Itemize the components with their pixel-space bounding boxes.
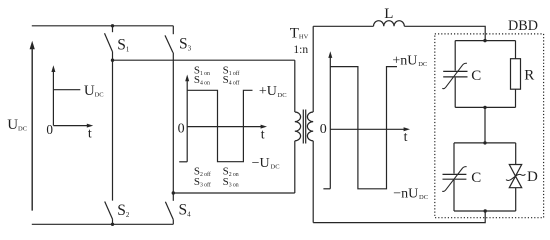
capacitor C (upper, variable): [442, 63, 467, 88]
svg-text:DC: DC: [271, 164, 280, 171]
svg-text:C: C: [471, 170, 481, 186]
secondary square wave: [330, 67, 397, 189]
svg-text:C: C: [471, 68, 481, 84]
svg-text:S1: S1: [117, 37, 130, 54]
inductor L: [374, 21, 405, 27]
wire midpoint B to transformer (box bottom edge): [173, 192, 294, 194]
label +nU_DC: [392, 54, 427, 69]
label U_DC (inset): [84, 83, 104, 99]
primary waveform axes: [185, 75, 267, 162]
switch S2: [105, 202, 113, 225]
label -U_DC: [252, 156, 280, 171]
transformer primary winding: [295, 112, 301, 141]
svg-text:S2: S2: [117, 202, 130, 219]
wire leg2 (S3 bottom to S4 top): [172, 53, 174, 194]
label S1 off / S4 off: [223, 64, 240, 86]
svg-text:−nU: −nU: [393, 186, 418, 201]
node bottom of leg 1: [111, 223, 114, 226]
DC source arrow U_DC: [30, 41, 35, 211]
secondary waveform pre-zero low stub: [323, 188, 330, 190]
svg-text:R: R: [524, 68, 534, 84]
discharge gap D (back-to-back): [506, 165, 525, 188]
label S2 off / S3 off: [194, 166, 211, 189]
svg-text:0: 0: [320, 122, 327, 137]
svg-text:HV: HV: [299, 34, 309, 41]
upper cell box wires: [455, 41, 515, 108]
wire transformer primary bottom lead: [294, 141, 296, 193]
svg-text:U: U: [84, 83, 95, 99]
label -nU_DC: [393, 186, 428, 201]
wire transformer primary top lead: [294, 60, 296, 112]
switch S1: [105, 26, 113, 60]
wire transformer secondary bottom lead: [312, 141, 314, 223]
svg-text:+nU: +nU: [392, 54, 417, 69]
svg-text:DC: DC: [419, 194, 428, 201]
primary waveform pre-zero low stub: [179, 161, 187, 163]
wire bottom DC bus: [32, 223, 174, 225]
secondary waveform axes: [328, 51, 410, 189]
node between cells (bottom): [483, 141, 486, 144]
switch S3: [165, 26, 173, 53]
svg-text:1:n: 1:n: [293, 44, 308, 56]
capacitor C (lower, variable): [442, 167, 466, 192]
svg-text:L: L: [384, 6, 393, 22]
svg-text:T: T: [290, 26, 299, 42]
wire inductor to DBD top: [404, 26, 485, 40]
input waveform U_DC level line: [53, 89, 80, 91]
lower cell box wires: [454, 143, 516, 211]
svg-text:DC: DC: [278, 92, 287, 99]
node between cells (top): [483, 106, 486, 109]
wire transformer secondary top lead: [312, 26, 314, 112]
label S1 on / S4 on: [194, 64, 210, 86]
wire between upper and lower cells: [484, 107, 486, 142]
svg-text:+U: +U: [259, 84, 277, 99]
node DBD bottom: [484, 209, 487, 212]
node A (leg1 midpoint): [111, 59, 114, 62]
wire midpoint A to transformer (box top edge): [113, 59, 295, 61]
label S2 on / S3 on: [223, 166, 239, 189]
wire secondary bottom to DBD: [313, 211, 485, 223]
transformer secondary winding: [307, 112, 313, 141]
svg-text:S3: S3: [179, 36, 192, 53]
label T_HV: [290, 26, 309, 42]
svg-text:0: 0: [178, 122, 185, 137]
wire secondary top to inductor: [313, 25, 373, 27]
switch S4: [165, 193, 173, 224]
node B (leg2 midpoint): [172, 191, 175, 194]
svg-text:t: t: [88, 127, 92, 142]
svg-text:DC: DC: [18, 126, 27, 133]
svg-text:DC: DC: [95, 92, 104, 99]
svg-text:−U: −U: [252, 156, 270, 171]
primary square wave: [187, 90, 252, 161]
svg-text:t: t: [261, 128, 265, 143]
label +U_DC: [259, 84, 287, 99]
svg-text:U: U: [7, 117, 18, 133]
DBD dotted enclosure: [435, 34, 544, 218]
svg-text:DBD: DBD: [508, 18, 538, 34]
wire leg1 midpoint down to S2: [112, 60, 114, 200]
node DBD top: [483, 39, 486, 42]
svg-text:0: 0: [46, 122, 53, 137]
svg-text:D: D: [527, 169, 538, 185]
svg-text:DC: DC: [418, 61, 427, 68]
node top of leg 1: [111, 24, 114, 27]
label U_DC (source): [7, 117, 27, 133]
input waveform inset axes: [51, 65, 93, 127]
transformer core: [303, 110, 305, 144]
resistor R: [511, 59, 521, 89]
svg-text:t: t: [404, 130, 408, 145]
svg-text:S4: S4: [179, 201, 192, 218]
wire top DC bus: [32, 25, 174, 27]
